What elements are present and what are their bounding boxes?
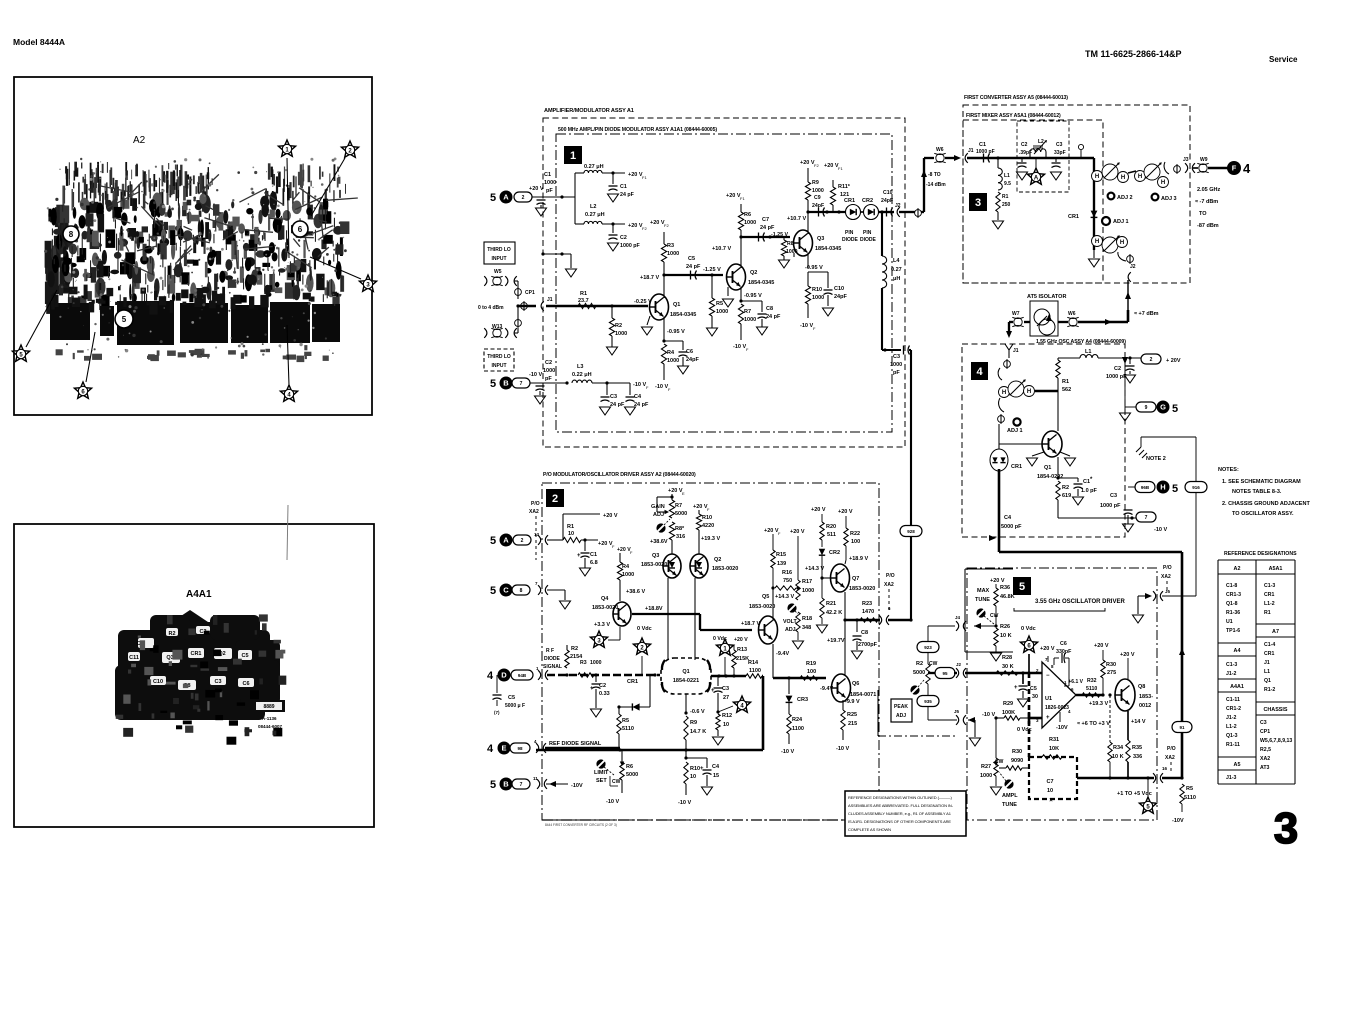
diode CR3 — [788, 678, 790, 694]
svg-text:≈ -7 dBm: ≈ -7 dBm — [1195, 199, 1218, 205]
ground below R8 — [779, 260, 790, 268]
svg-text:R1-36: R1-36 — [1226, 610, 1240, 616]
Q1 collector wire — [663, 275, 665, 298]
svg-text:CR1: CR1 — [1068, 214, 1079, 220]
sub box P/O XA2 ovals — [877, 690, 879, 736]
svg-text:-10V: -10V — [571, 783, 583, 789]
svg-text:R25: R25 — [847, 712, 857, 718]
svg-text:+20 V: +20 V — [1120, 652, 1135, 658]
Q3 emitter wire — [807, 253, 809, 268]
Q3 collector wire — [807, 212, 809, 234]
svg-text:+18.9 V: +18.9 V — [849, 556, 868, 562]
callout 1 — [287, 158, 289, 258]
svg-text:Q1-8: Q1-8 — [1226, 601, 1238, 607]
circled 5 on photo — [115, 310, 133, 328]
svg-text:4: 4 — [487, 670, 494, 682]
wire 5A to C1 — [532, 196, 575, 198]
RF bus through Q1 to corner — [711, 675, 746, 678]
ground below C10 Q3 — [827, 295, 829, 306]
svg-text:100: 100 — [807, 669, 816, 675]
ground below R12 — [713, 737, 724, 745]
wire CR2 to J2 — [878, 211, 894, 213]
svg-text:1854-0292: 1854-0292 — [1037, 474, 1063, 480]
svg-text:24pF: 24pF — [881, 198, 893, 204]
oval 96B H5 — [1128, 486, 1136, 488]
svg-text:+19.7V: +19.7V — [827, 638, 845, 644]
svg-text:C11: C11 — [129, 655, 139, 661]
svg-text:A5: A5 — [1234, 762, 1241, 768]
wire Q2 collector to Q3 base — [741, 236, 790, 238]
svg-text:NOTE 2: NOTE 2 — [1146, 456, 1166, 462]
svg-text:A2: A2 — [133, 135, 146, 146]
section marker 2 — [546, 489, 564, 507]
svg-text:5: 5 — [490, 192, 496, 204]
svg-text:PIN: PIN — [863, 230, 872, 236]
svg-text:-10 V: -10 V — [982, 712, 995, 718]
svg-text:CW: CW — [990, 613, 999, 619]
svg-text:CR1: CR1 — [627, 679, 638, 685]
svg-text:F: F — [630, 550, 633, 555]
svg-text:-10 V: -10 V — [733, 344, 746, 350]
svg-text:Q7: Q7 — [852, 576, 859, 582]
svg-text:3: 3 — [975, 197, 981, 209]
svg-text:250: 250 — [1002, 202, 1011, 208]
wire from J2 up to converter — [914, 211, 924, 213]
svg-text:CR1: CR1 — [190, 651, 201, 657]
svg-text:1.0 pF: 1.0 pF — [1081, 488, 1098, 494]
svg-text:-14 dBm: -14 dBm — [926, 182, 946, 188]
svg-text:F: F — [1232, 164, 1237, 173]
callout 3 — [310, 257, 361, 279]
svg-text:2: 2 — [1150, 357, 1153, 363]
input node J1 — [516, 304, 519, 307]
svg-text:-1.25 V: -1.25 V — [771, 232, 789, 238]
svg-text:+20 V: +20 V — [824, 163, 839, 169]
Q3 Q2 collector wires to Q1 gates — [667, 578, 669, 660]
svg-text:C3: C3 — [610, 394, 617, 400]
svg-text:AMPLIFIER/MODULATOR ASSY A1: AMPLIFIER/MODULATOR ASSY A1 — [544, 108, 634, 114]
svg-text:R1: R1 — [567, 524, 574, 530]
photo frame A4A1 board — [14, 524, 374, 827]
svg-text:TO: TO — [1199, 211, 1207, 217]
svg-text:-87 dBm: -87 dBm — [1197, 223, 1219, 229]
svg-text:R9: R9 — [690, 720, 697, 726]
ground below C3 24pF — [600, 407, 611, 415]
ground below C2 lower — [539, 391, 541, 395]
svg-text:100: 100 — [851, 539, 860, 545]
svg-text:R2: R2 — [615, 323, 622, 329]
svg-text:Q1: Q1 — [673, 302, 680, 308]
svg-text:DIODE: DIODE — [860, 237, 877, 243]
op amp U1 1826-0023 — [1042, 662, 1076, 728]
svg-text:NOTES:: NOTES: — [1218, 467, 1239, 473]
svg-text:14.7 K: 14.7 K — [690, 729, 706, 735]
svg-text:R28: R28 — [1002, 655, 1012, 661]
REF bus wire — [545, 747, 620, 750]
svg-text:+10.7 V: +10.7 V — [712, 246, 731, 252]
svg-text:+38.6V: +38.6V — [650, 539, 668, 545]
svg-text:96B: 96B — [1141, 485, 1150, 490]
svg-text:R26: R26 — [1000, 624, 1010, 630]
svg-text:CR2: CR2 — [829, 550, 840, 556]
svg-text:L4: L4 — [893, 258, 900, 264]
svg-text:+20 V: +20 V — [764, 528, 779, 534]
svg-text:MAX: MAX — [977, 588, 990, 594]
arrow at osc box bottom — [989, 535, 996, 541]
svg-text:A4A1: A4A1 — [186, 589, 212, 600]
svg-text:R31: R31 — [1049, 737, 1059, 743]
svg-text:C5: C5 — [508, 695, 515, 701]
svg-text:98: 98 — [517, 746, 523, 751]
svg-text:IS A1R1. DESIGNATIONS OF OTH: IS A1R1. DESIGNATIONS OF OTHER COMPONENT… — [848, 819, 951, 824]
svg-text:0.27 μH: 0.27 μH — [584, 164, 604, 170]
svg-text:R2: R2 — [571, 646, 578, 652]
svg-text:+18.7 V: +18.7 V — [640, 275, 659, 281]
svg-text:24 pF: 24 pF — [766, 314, 781, 320]
output connector J3 — [1174, 166, 1181, 173]
note box reference designations — [845, 791, 966, 836]
svg-text:C8: C8 — [861, 630, 868, 636]
svg-text:3: 3 — [1274, 804, 1298, 853]
ground below C1* — [1077, 489, 1079, 496]
svg-text:C3: C3 — [893, 354, 900, 360]
Q2 base ground — [727, 287, 729, 296]
svg-text:C2: C2 — [620, 235, 627, 241]
svg-text:R32: R32 — [1087, 678, 1097, 684]
svg-text:TUNE: TUNE — [1002, 802, 1017, 808]
svg-text:C5: C5 — [1030, 686, 1037, 692]
svg-text:R5: R5 — [716, 301, 723, 307]
ground below C2 osc — [1129, 371, 1131, 374]
svg-text:F1: F1 — [740, 196, 745, 201]
svg-text:0.27 μH: 0.27 μH — [585, 212, 605, 218]
svg-text:24pF: 24pF — [686, 357, 699, 363]
ground below C6 — [682, 357, 684, 366]
svg-text:R1: R1 — [580, 291, 587, 297]
svg-text:+6.1 V: +6.1 V — [1068, 679, 1083, 685]
ground below R2 — [607, 347, 618, 355]
svg-text:R5: R5 — [1186, 786, 1193, 792]
svg-text:4220: 4220 — [702, 523, 714, 529]
svg-text:CR2: CR2 — [862, 198, 873, 204]
svg-text:R11*: R11* — [838, 184, 851, 190]
svg-text:R13: R13 — [737, 647, 747, 653]
svg-text:≈ +6 TO +3 V: ≈ +6 TO +3 V — [1077, 721, 1110, 727]
oval 2 +20V — [1141, 354, 1161, 364]
svg-text:R6: R6 — [626, 764, 633, 770]
svg-text:R3: R3 — [580, 660, 587, 666]
svg-text:F2: F2 — [664, 223, 669, 228]
svg-text:−: − — [1046, 673, 1050, 679]
svg-text:F: F — [707, 507, 710, 512]
svg-text:R10: R10 — [812, 287, 822, 293]
svg-text:R24: R24 — [792, 717, 803, 723]
svg-text:-9.4V: -9.4V — [776, 651, 789, 657]
ground 5C — [560, 601, 571, 609]
svg-text:C7: C7 — [762, 217, 769, 223]
svg-text:-10V: -10V — [1056, 725, 1068, 731]
svg-text:10: 10 — [723, 722, 729, 728]
svg-text:H: H — [1120, 240, 1124, 246]
svg-text:J1: J1 — [1013, 348, 1019, 354]
svg-text:C2: C2 — [1021, 142, 1028, 148]
svg-text:4: 4 — [1243, 161, 1251, 176]
circled 8 on photo — [63, 226, 79, 242]
svg-text:1000: 1000 — [543, 368, 555, 374]
svg-text:30: 30 — [1032, 694, 1038, 700]
svg-text:0 Vdc: 0 Vdc — [1021, 626, 1036, 632]
svg-text:B: B — [503, 780, 509, 789]
svg-text:33pF: 33pF — [1054, 150, 1066, 156]
svg-text:R30: R30 — [1012, 749, 1022, 755]
svg-text:R2,5: R2,5 — [1260, 747, 1271, 753]
svg-text:-10 V: -10 V — [781, 749, 794, 755]
svg-text:1000: 1000 — [667, 251, 679, 257]
svg-text:-8 TO: -8 TO — [928, 172, 941, 178]
svg-text:REFERENCE DESIGNATIONS WITHIN: REFERENCE DESIGNATIONS WITHIN OUTLINED (… — [848, 795, 953, 800]
svg-text:Q1: Q1 — [1264, 678, 1271, 684]
svg-text:AT3: AT3 — [1260, 765, 1270, 771]
svg-text:1000: 1000 — [544, 180, 556, 186]
volt adj screwdriver — [787, 603, 796, 612]
svg-text:CP1: CP1 — [525, 290, 535, 296]
svg-text:-10 V: -10 V — [655, 384, 668, 390]
svg-text:P/O: P/O — [1163, 565, 1172, 571]
svg-text:2700pF: 2700pF — [858, 642, 878, 648]
svg-text:H: H — [1121, 175, 1125, 181]
svg-text:C9: C9 — [814, 195, 821, 201]
section marker 3 — [969, 193, 987, 211]
svg-text:R20: R20 — [826, 524, 836, 530]
svg-text:1853-0020: 1853-0020 — [712, 566, 738, 572]
svg-text:9090: 9090 — [1011, 758, 1023, 764]
svg-text:pF: pF — [545, 376, 552, 382]
svg-text:+20 V: +20 V — [668, 488, 683, 494]
svg-text:46.8K: 46.8K — [1000, 594, 1015, 600]
section marker 4 — [971, 362, 988, 380]
ground stub near A1 left edge — [543, 253, 571, 255]
svg-text:E: E — [682, 491, 685, 496]
svg-text:+20 V: +20 V — [734, 637, 748, 643]
svg-text:1100: 1100 — [792, 726, 804, 732]
op amp minus input wire — [1029, 717, 1042, 720]
svg-text:+20 V: +20 V — [726, 193, 741, 199]
svg-text:750: 750 — [783, 578, 792, 584]
svg-text:FIRST MIXER ASSY A5A1 (08444-6: FIRST MIXER ASSY A5A1 (08444-60012) — [966, 113, 1061, 119]
svg-text:E: E — [501, 744, 506, 753]
svg-text:CR1: CR1 — [844, 198, 855, 204]
svg-text:R22: R22 — [850, 531, 860, 537]
svg-text:1000: 1000 — [980, 773, 992, 779]
label box THIRD LO INPUT lower — [484, 349, 514, 371]
svg-text:10 K: 10 K — [1112, 754, 1124, 760]
svg-text:R23: R23 — [862, 601, 872, 607]
connector J1 converter — [965, 153, 968, 163]
sheet ref F4 — [1227, 161, 1241, 175]
svg-text:5000: 5000 — [675, 511, 687, 517]
svg-text:C5: C5 — [241, 653, 248, 659]
svg-text:C1: C1 — [544, 172, 551, 178]
svg-text:H: H — [1160, 483, 1165, 492]
svg-text:8889: 8889 — [263, 704, 274, 710]
wire mixer out to R1 osc — [1035, 390, 1058, 393]
svg-text:R7: R7 — [744, 309, 751, 315]
svg-text:TUNE: TUNE — [975, 597, 990, 603]
svg-text:XA2: XA2 — [884, 582, 894, 588]
svg-text:95: 95 — [942, 671, 948, 676]
svg-text:10 K: 10 K — [1000, 633, 1012, 639]
svg-text:10: 10 — [1047, 788, 1053, 794]
svg-text:CR1-3: CR1-3 — [1226, 592, 1241, 598]
transistor Q8 1853-0012 — [1115, 679, 1135, 711]
svg-text:+18.7 V: +18.7 V — [741, 621, 760, 627]
svg-text:Model 8444A: Model 8444A — [13, 37, 65, 47]
svg-text:+20 V: +20 V — [1094, 643, 1109, 649]
svg-text:+20 V: +20 V — [603, 513, 618, 519]
svg-text:316: 316 — [676, 534, 685, 540]
svg-text:R29: R29 — [1003, 701, 1013, 707]
svg-text:Service: Service — [1269, 55, 1298, 64]
svg-text:CP1: CP1 — [1260, 729, 1270, 735]
svg-text:-0.95 V: -0.95 V — [667, 329, 685, 335]
arrow up main line — [1179, 648, 1185, 655]
callout 4 — [287, 325, 289, 385]
svg-text:J1: J1 — [968, 148, 974, 154]
svg-text:CLUDES ASSEMBLY NUMBER, e.g.,: CLUDES ASSEMBLY NUMBER, e.g., R1 OF ASSE… — [848, 811, 952, 816]
svg-text:J1-2: J1-2 — [1226, 671, 1236, 677]
svg-text:Q6: Q6 — [852, 681, 859, 687]
svg-text:+: + — [711, 688, 715, 694]
svg-text:1000: 1000 — [744, 317, 756, 323]
svg-text:F: F — [813, 326, 816, 331]
ground below C3 osc — [1123, 524, 1134, 532]
svg-text:R18: R18 — [802, 616, 812, 622]
thick osc line down — [998, 469, 1001, 552]
svg-text:+: + — [700, 766, 704, 772]
junction below REF bus — [685, 750, 687, 758]
svg-text:Q3: Q3 — [817, 236, 824, 242]
svg-text:A-1136: A-1136 — [262, 716, 277, 721]
Q3 base ground — [793, 253, 795, 257]
svg-text:F: F — [746, 347, 749, 352]
capacitor C7 box — [1029, 757, 1077, 799]
svg-text:+20 V: +20 V — [693, 504, 708, 510]
svg-text:42.2 K: 42.2 K — [826, 610, 842, 616]
svg-text:ADJ: ADJ — [785, 627, 796, 633]
svg-text:C1-4: C1-4 — [1264, 642, 1275, 648]
node after C1 — [996, 156, 999, 159]
svg-text:L1: L1 — [1264, 669, 1270, 675]
svg-text:+20 V: +20 V — [838, 509, 853, 515]
svg-text:C1-8: C1-8 — [1226, 583, 1237, 589]
svg-text:+14.3 V: +14.3 V — [805, 566, 824, 572]
svg-text:J3: J3 — [1183, 157, 1189, 163]
svg-text:336: 336 — [1133, 754, 1142, 760]
ground below C8 — [856, 641, 858, 650]
svg-text:×: × — [1049, 798, 1053, 804]
svg-text:1000: 1000 — [590, 660, 602, 666]
Q7 base wire — [822, 577, 830, 579]
svg-text:15: 15 — [713, 773, 719, 779]
svg-text:D: D — [501, 671, 507, 680]
svg-text:1853-0020: 1853-0020 — [849, 586, 875, 592]
svg-text:REFERENCE DESIGNATIONS: REFERENCE DESIGNATIONS — [1224, 551, 1297, 557]
sheet bottom boundary A2 — [542, 819, 965, 821]
ground below CR1 converter — [1093, 250, 1095, 258]
svg-text:F: F — [778, 531, 781, 536]
svg-text:R34: R34 — [1113, 745, 1124, 751]
svg-text:R2: R2 — [916, 661, 923, 667]
svg-text:C3: C3 — [722, 686, 729, 692]
svg-text:SIGNAL: SIGNAL — [543, 664, 562, 670]
svg-text:R12: R12 — [722, 713, 732, 719]
svg-text:-10 V: -10 V — [633, 382, 646, 388]
svg-text:1000: 1000 — [802, 588, 814, 594]
svg-text:139: 139 — [777, 561, 786, 567]
oval 9 G5 — [1136, 402, 1156, 412]
svg-text:5: 5 — [490, 378, 496, 390]
ground below C1 6.8 — [584, 558, 586, 568]
svg-text:C1: C1 — [1083, 479, 1090, 485]
svg-text:0 Vdc: 0 Vdc — [637, 626, 652, 632]
svg-text:ADJ: ADJ — [653, 512, 664, 518]
svg-text:5: 5 — [1172, 483, 1178, 495]
callout 5 — [26, 290, 57, 347]
svg-text:H: H — [1138, 174, 1142, 180]
oscillator driver box — [967, 568, 1157, 820]
star 4 — [733, 696, 750, 712]
oval 7 -10V — [1136, 512, 1156, 522]
svg-text:511: 511 — [827, 532, 836, 538]
svg-text:F1: F1 — [642, 175, 647, 180]
svg-text:1000 pF: 1000 pF — [1100, 503, 1121, 509]
svg-text:1826-0023: 1826-0023 — [1045, 705, 1069, 711]
ground below oval 9 wire — [1124, 407, 1126, 412]
ground below R21 — [817, 625, 828, 633]
svg-text:30 K: 30 K — [1002, 664, 1014, 670]
svg-text:J5: J5 — [1165, 589, 1171, 594]
mixer chain upper — [1093, 170, 1095, 172]
ground below C8 — [761, 319, 763, 327]
svg-text:J2: J2 — [895, 203, 901, 209]
svg-text:1000: 1000 — [667, 358, 679, 364]
svg-text:R2: R2 — [1062, 485, 1069, 491]
svg-text:R10: R10 — [690, 766, 700, 772]
svg-text:1000 pF: 1000 pF — [976, 149, 995, 155]
svg-text:+: + — [1014, 685, 1018, 691]
svg-text:R1: R1 — [1002, 194, 1009, 200]
svg-text:ADJ 3: ADJ 3 — [1161, 196, 1177, 202]
svg-text:R4: R4 — [622, 564, 630, 570]
wire +20V tap — [562, 514, 564, 540]
svg-text:ADJ 1: ADJ 1 — [1113, 219, 1129, 225]
svg-text:4: 4 — [1068, 709, 1071, 714]
svg-text:348: 348 — [802, 625, 811, 631]
svg-text:L3: L3 — [577, 364, 583, 370]
svg-text:+18.8V: +18.8V — [645, 606, 663, 612]
svg-text:C1: C1 — [979, 142, 986, 148]
svg-text:6: 6 — [1071, 687, 1074, 692]
svg-text:24pF: 24pF — [834, 294, 847, 300]
svg-text:+1 TO +5 Vdc: +1 TO +5 Vdc — [1117, 791, 1152, 797]
svg-text:16: 16 — [1162, 766, 1168, 771]
svg-text:-10 V: -10 V — [678, 800, 691, 806]
svg-text:500 MHz AMPL/PIN DIODE MODULAT: 500 MHz AMPL/PIN DIODE MODULATOR ASSY A1… — [558, 127, 717, 133]
svg-text:0 to 4 dBm: 0 to 4 dBm — [478, 305, 504, 311]
svg-text:5110: 5110 — [1086, 686, 1097, 692]
ampl tune screwdriver — [1004, 779, 1013, 788]
svg-text:+19.3 V: +19.3 V — [701, 536, 720, 542]
